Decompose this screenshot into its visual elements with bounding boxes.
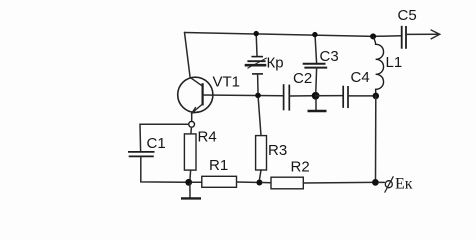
svg-text:C2: C2 bbox=[293, 70, 312, 87]
wire emitter node to C1 bbox=[140, 124, 189, 151]
wire junction to ground bbox=[315, 99, 317, 110]
wire L1 junction down to Ek bbox=[375, 96, 377, 179]
wire top supply rail bbox=[185, 33, 402, 37]
svg-text:Ек: Ек bbox=[395, 176, 413, 193]
wire R4 bottom lead bbox=[189, 170, 192, 179]
resistor R1 bbox=[202, 176, 237, 187]
wire C2 to C3 junction bbox=[289, 95, 312, 97]
ground (middle) bbox=[308, 110, 327, 112]
junction rail/Kp bbox=[254, 31, 259, 36]
terminal symbol (slashed circle) bbox=[385, 176, 394, 192]
junction C4/L1 bbox=[373, 93, 380, 100]
resistor R2 bbox=[271, 177, 303, 189]
wire emitter lead bbox=[191, 112, 193, 121]
node emitter (open circle) bbox=[189, 121, 195, 127]
wire C5 output with arrow bbox=[406, 30, 440, 39]
wire stub to terminal symbol bbox=[379, 181, 385, 183]
wire C1 bottom to ground rail bbox=[141, 157, 186, 182]
capacitor C1 bbox=[128, 152, 155, 157]
wire Kp branch from rail bbox=[255, 34, 258, 56]
svg-text:C5: C5 bbox=[398, 7, 417, 24]
svg-text:Кр: Кр bbox=[267, 55, 284, 72]
wire Kp to base junction bbox=[257, 74, 259, 93]
resistor R4 bbox=[184, 134, 196, 170]
svg-text:VT1: VT1 bbox=[213, 74, 241, 91]
svg-text:R4: R4 bbox=[198, 129, 217, 146]
wire R3 bottom lead bbox=[260, 170, 262, 179]
wire junction to R2 bbox=[262, 182, 271, 184]
wire C3 to junction bbox=[315, 68, 318, 92]
wire C3 branch from rail bbox=[315, 35, 317, 63]
wire base lead bbox=[203, 94, 283, 97]
ground (left) bbox=[181, 183, 201, 198]
node Ek terminal bbox=[372, 179, 379, 186]
wire R1 to junction bbox=[237, 181, 257, 183]
inductor L1 bbox=[373, 37, 383, 93]
svg-text:C3: C3 bbox=[320, 48, 339, 65]
svg-text:R3: R3 bbox=[268, 142, 287, 159]
svg-text:R2: R2 bbox=[291, 158, 310, 175]
wire collector riser bbox=[185, 33, 191, 77]
capacitor C3 bbox=[303, 64, 328, 68]
junction R4 bottom bbox=[185, 179, 192, 186]
resistor R3 bbox=[256, 136, 267, 170]
transistor VT1 bbox=[178, 77, 213, 113]
junction rail/L1/C5 bbox=[370, 33, 376, 39]
trimmer capacitor Kp bbox=[245, 57, 267, 74]
capacitor C2 bbox=[284, 84, 290, 110]
svg-text:L1: L1 bbox=[386, 54, 403, 71]
wire junction to C4 bbox=[316, 95, 343, 97]
capacitor C4 bbox=[343, 86, 348, 108]
junction R1/R3/R2 bbox=[256, 180, 262, 186]
junction rail/C3 bbox=[312, 32, 317, 37]
wire node to R4 bbox=[190, 127, 193, 134]
junction C2/C3/C4/ground bbox=[312, 92, 320, 100]
wire C4 to L1 junction bbox=[348, 95, 373, 97]
svg-text:C4: C4 bbox=[351, 69, 370, 86]
svg-text:R1: R1 bbox=[209, 157, 228, 174]
wire base junction to R3 bbox=[258, 98, 261, 136]
capacitor C5 bbox=[402, 26, 406, 49]
junction base/Kp/R3 bbox=[255, 93, 261, 99]
wire junction to R1 bbox=[192, 181, 202, 183]
svg-text:C1: C1 bbox=[147, 135, 166, 152]
wire R2 to Ek terminal bbox=[304, 181, 373, 184]
